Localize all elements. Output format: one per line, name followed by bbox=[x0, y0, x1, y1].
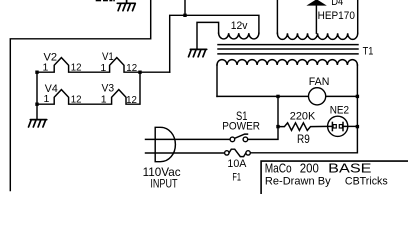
svg-text:CBTricks: CBTricks bbox=[345, 175, 388, 187]
svg-text:F1: F1 bbox=[232, 172, 241, 184]
svg-text:12v: 12v bbox=[231, 20, 248, 32]
svg-text:200: 200 bbox=[300, 161, 319, 176]
svg-text:1: 1 bbox=[42, 61, 48, 73]
svg-text:FAN: FAN bbox=[309, 76, 330, 88]
svg-text:1: 1 bbox=[100, 62, 106, 74]
svg-text:1: 1 bbox=[101, 93, 107, 105]
svg-text:220K: 220K bbox=[290, 110, 316, 122]
svg-text:D4: D4 bbox=[331, 0, 343, 8]
svg-text:Re-Drawn By: Re-Drawn By bbox=[265, 175, 331, 187]
svg-text:NE2: NE2 bbox=[330, 105, 349, 117]
svg-text:12: 12 bbox=[71, 93, 82, 105]
svg-text:12: 12 bbox=[126, 62, 137, 74]
svg-text:T1: T1 bbox=[363, 46, 374, 58]
svg-text:HEP170: HEP170 bbox=[318, 10, 355, 22]
svg-text:INPUT: INPUT bbox=[150, 177, 178, 191]
svg-text:MaCo: MaCo bbox=[265, 161, 292, 176]
svg-text:R9: R9 bbox=[297, 134, 310, 146]
svg-text:10A: 10A bbox=[227, 158, 247, 170]
svg-text:BASE: BASE bbox=[328, 161, 372, 176]
svg-text:1: 1 bbox=[44, 93, 50, 105]
svg-text:12: 12 bbox=[71, 62, 82, 74]
svg-text:12: 12 bbox=[126, 94, 137, 106]
svg-text:POWER: POWER bbox=[222, 121, 260, 133]
